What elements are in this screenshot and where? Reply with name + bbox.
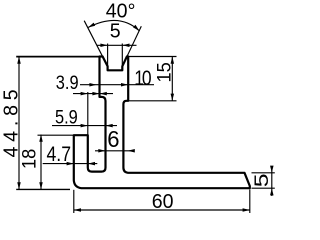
svg-text:44.85: 44.85 [0,85,22,158]
svg-text:15: 15 [153,62,174,82]
svg-text:10: 10 [134,68,151,91]
svg-text:3.9: 3.9 [56,72,79,94]
svg-text:4.7: 4.7 [47,143,72,167]
svg-text:5.9: 5.9 [55,106,78,128]
svg-text:60: 60 [152,191,174,213]
svg-text:5: 5 [251,173,273,187]
svg-text:6: 6 [107,126,119,152]
svg-text:5: 5 [110,20,121,42]
